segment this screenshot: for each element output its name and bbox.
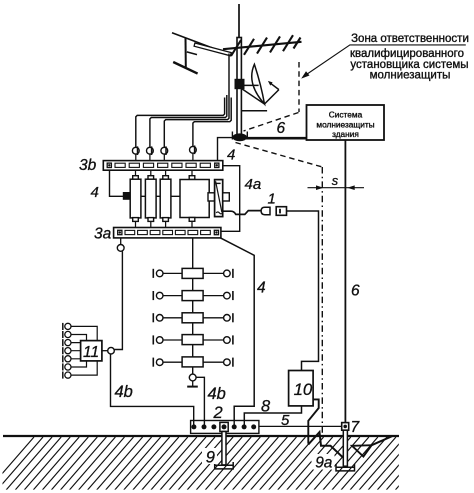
yagi antenna A1 boom <box>223 42 302 49</box>
s left arrowhead <box>316 185 324 190</box>
cable gland circles above busbar 3b <box>132 147 139 154</box>
svg-text:Система: Система <box>329 110 363 120</box>
element 11 tap 1 <box>62 323 64 330</box>
element 11 tap 6 <box>62 363 64 370</box>
riser main line <box>192 238 194 374</box>
diagonal from 3a right end to line 4 <box>221 238 255 426</box>
svg-text:11: 11 <box>83 344 99 361</box>
element 11 tap 7 <box>62 372 64 379</box>
yagi A2 lower boom rail <box>187 52 197 55</box>
busbar 2 <box>191 421 259 434</box>
riser tap unit 5 <box>152 358 154 367</box>
earth electrode 9a <box>343 430 347 466</box>
s right arrowhead <box>347 185 355 190</box>
element 11 box <box>81 341 102 361</box>
element 11 tap 4 <box>62 347 64 354</box>
coax through line (SPD row) <box>129 195 213 197</box>
dish LNB arm <box>265 90 279 104</box>
svg-text:2: 2 <box>213 404 223 422</box>
label 9 <box>202 448 217 464</box>
plug connector 1 <box>261 207 270 215</box>
SPD D3 <box>163 176 169 180</box>
element 11 tap 2 <box>62 331 64 338</box>
svg-text:молниезащиты: молниезащиты <box>370 70 451 82</box>
isolator right terminal <box>223 193 230 201</box>
wire busbar 3b left end down to SPD feed <box>110 170 124 196</box>
label 9a <box>312 454 335 470</box>
wire busbar 3b right end to 4a loop <box>219 166 240 232</box>
antenna cable 1 <box>136 98 225 148</box>
wire 11 circle down to busbar 2 (4b left) <box>111 354 194 426</box>
ground hatching <box>0 437 441 490</box>
surge current open arrowhead <box>352 445 372 456</box>
wire from socket to riser down line <box>287 211 319 371</box>
element 11 tap 5 <box>62 355 64 362</box>
svg-text:4b: 4b <box>115 383 133 401</box>
busbar 2 terminal dots <box>191 424 196 429</box>
wire: mast base left to busbar 3b right end <box>218 138 235 162</box>
svg-text:8: 8 <box>261 397 271 415</box>
svg-text:1: 1 <box>268 190 276 207</box>
element 11 tap 3 <box>62 339 64 346</box>
zone boundary dashed vertical (top) <box>298 62 300 112</box>
svg-text:здания: здания <box>332 129 359 139</box>
wire 5: busbar 2 right to terminal 7 <box>259 425 342 427</box>
svg-text:4: 4 <box>91 184 99 201</box>
surge current zigzag left <box>308 432 343 457</box>
note text top right <box>350 33 469 82</box>
leader line from note text <box>304 45 466 77</box>
gland below busbar 3a left end <box>120 238 122 245</box>
SPD stubs into busbar 3a <box>135 221 137 228</box>
yagi A2 vertical element <box>185 38 187 67</box>
wire 3a gland down to element 11 circle <box>114 251 122 349</box>
riser tap unit 4 <box>152 335 154 344</box>
box 10 <box>289 371 314 406</box>
svg-text:7: 7 <box>351 419 361 436</box>
svg-text:4: 4 <box>257 280 266 297</box>
svg-text:9: 9 <box>206 449 215 467</box>
ground surface line <box>3 435 399 437</box>
bonding conductor 6 horizontal (mast base to building LPS box) <box>243 137 307 140</box>
zone boundary dashed diagonal from base down right <box>236 143 323 168</box>
riser tap unit 3 <box>152 313 154 322</box>
mast base plate <box>233 134 246 140</box>
antenna cable 4 <box>193 98 231 147</box>
svg-text:9a: 9a <box>315 454 333 471</box>
busbar 3b <box>103 161 223 171</box>
zone boundary dashed diagonal to mast base <box>244 113 299 132</box>
riser bottom gland circle <box>189 374 196 381</box>
isolator unit <box>215 180 223 217</box>
building LPS box <box>307 105 385 140</box>
leader arrowhead <box>301 71 309 78</box>
dish mount bracket <box>235 80 244 89</box>
separation distance s dimension line <box>308 187 365 189</box>
SPD stubs from busbar 3b <box>135 170 137 176</box>
svg-text:6: 6 <box>277 120 286 137</box>
wire 8: busbar 2 up right to box 10 bottom <box>244 406 301 426</box>
wire riser gland to busbar 2 (4b right) <box>196 377 204 426</box>
svg-text:s: s <box>332 173 339 188</box>
svg-text:молниезащиты: молниезащиты <box>316 120 374 130</box>
riser tap unit 1 <box>152 269 154 278</box>
yagi A2 folded boom (double line) <box>194 43 231 56</box>
earth electrode 9 clamp square <box>220 422 228 431</box>
zone boundary dashed vertical (long) <box>321 167 323 435</box>
busbar 3a <box>114 228 221 238</box>
svg-text:10: 10 <box>294 380 313 399</box>
svg-text:Зона ответственности: Зона ответственности <box>351 33 469 45</box>
yagi A1 elements <box>231 40 241 56</box>
yagi antenna A2 (left) boom <box>172 33 223 52</box>
drop wire with kink to plug <box>223 211 262 215</box>
SPD feed terminal (black square) <box>124 193 130 199</box>
dish feed strut horizontal <box>242 84 259 86</box>
riser bottom stub and terminator <box>192 381 194 386</box>
svg-text:3a: 3a <box>94 226 112 243</box>
riser tap unit 2 <box>152 291 154 300</box>
dish lower cable line <box>242 110 268 112</box>
dish LNB horn arrowhead <box>268 81 273 86</box>
antenna cable 2 <box>150 95 227 147</box>
antenna cable 3 (from left yagi) <box>164 54 229 148</box>
dish lower strut <box>242 89 265 104</box>
element 11 output circle <box>102 350 108 352</box>
svg-text:3b: 3b <box>79 157 97 174</box>
building LPS box text <box>316 110 374 140</box>
busbar 2 wire stubs to dots <box>194 421 245 427</box>
down conductor 6 vertical <box>344 140 346 423</box>
terminal 7 square <box>342 423 349 431</box>
svg-text:6: 6 <box>351 282 360 299</box>
svg-text:4: 4 <box>227 147 235 164</box>
isolator left terminal <box>208 193 215 201</box>
amplifier unit box <box>189 176 195 180</box>
earth electrode 9 <box>222 432 226 465</box>
socket connector 1 <box>276 207 286 216</box>
cable drops into busbar 3b <box>135 154 137 161</box>
svg-text:4a: 4a <box>245 176 262 193</box>
svg-text:5: 5 <box>281 412 290 429</box>
svg-text:4b: 4b <box>208 385 226 403</box>
antenna mast <box>237 38 241 136</box>
surge current zigzag right tail <box>372 436 392 445</box>
yagi A2 rear element <box>173 62 197 74</box>
SPD D1 <box>133 176 139 180</box>
dish reflector <box>252 64 265 104</box>
SPD D2 <box>148 176 154 180</box>
whip antenna rod <box>238 4 240 38</box>
wire box 10 right to earth (diagonal) <box>308 399 318 443</box>
